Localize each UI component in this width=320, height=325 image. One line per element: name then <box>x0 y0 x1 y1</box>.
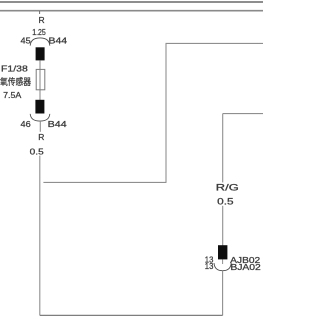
svg-text:B44: B44 <box>49 36 68 46</box>
svg-text:R: R <box>39 15 45 25</box>
wire main vertical run <box>39 156 41 316</box>
terminal pin AJB02 (filled) <box>218 245 227 259</box>
wire stub to right edge (upper) <box>166 42 264 44</box>
svg-text:46: 46 <box>21 119 31 129</box>
fuse F1/38 body <box>36 69 45 89</box>
power bus line lower (rail R) <box>0 10 263 12</box>
terminal pin of fuse bottom (filled) <box>35 100 44 114</box>
power bus line upper <box>0 1 263 3</box>
bus tap tick <box>39 11 41 14</box>
terminal pin of fuse top (filled) <box>36 47 45 60</box>
wire bottom horizontal run <box>40 314 223 316</box>
connector B44 pin 45 arc <box>30 38 50 46</box>
wire branch horizontal to right <box>43 181 166 183</box>
svg-text:R/G: R/G <box>216 182 239 192</box>
wire down to connector <box>222 206 224 246</box>
svg-text:7.5A: 7.5A <box>3 90 22 100</box>
svg-text:B44: B44 <box>48 119 67 129</box>
svg-text:F1/38: F1/38 <box>1 64 28 74</box>
connector B44 pin 46 arc <box>30 114 50 121</box>
wire below connector <box>39 121 41 132</box>
wire from pin to fuse <box>39 60 41 100</box>
svg-text:0.5: 0.5 <box>217 196 233 206</box>
wire below connector to bottom <box>222 271 224 316</box>
wire vertical riser <box>165 43 167 183</box>
svg-text:45: 45 <box>21 36 31 46</box>
svg-text:BJA02: BJA02 <box>230 262 261 272</box>
connector AJB02/BJA02 mating arc <box>214 263 231 271</box>
svg-text:1.25: 1.25 <box>32 27 46 37</box>
wire stub to right edge (lower) <box>223 113 263 115</box>
wire through connector <box>222 260 224 265</box>
svg-text:0.5: 0.5 <box>30 146 44 156</box>
wire vertical drop from stub <box>222 114 224 183</box>
svg-text:13: 13 <box>205 261 214 271</box>
svg-text:R: R <box>38 132 44 142</box>
svg-text:氧传感器: 氧传感器 <box>0 76 31 87</box>
